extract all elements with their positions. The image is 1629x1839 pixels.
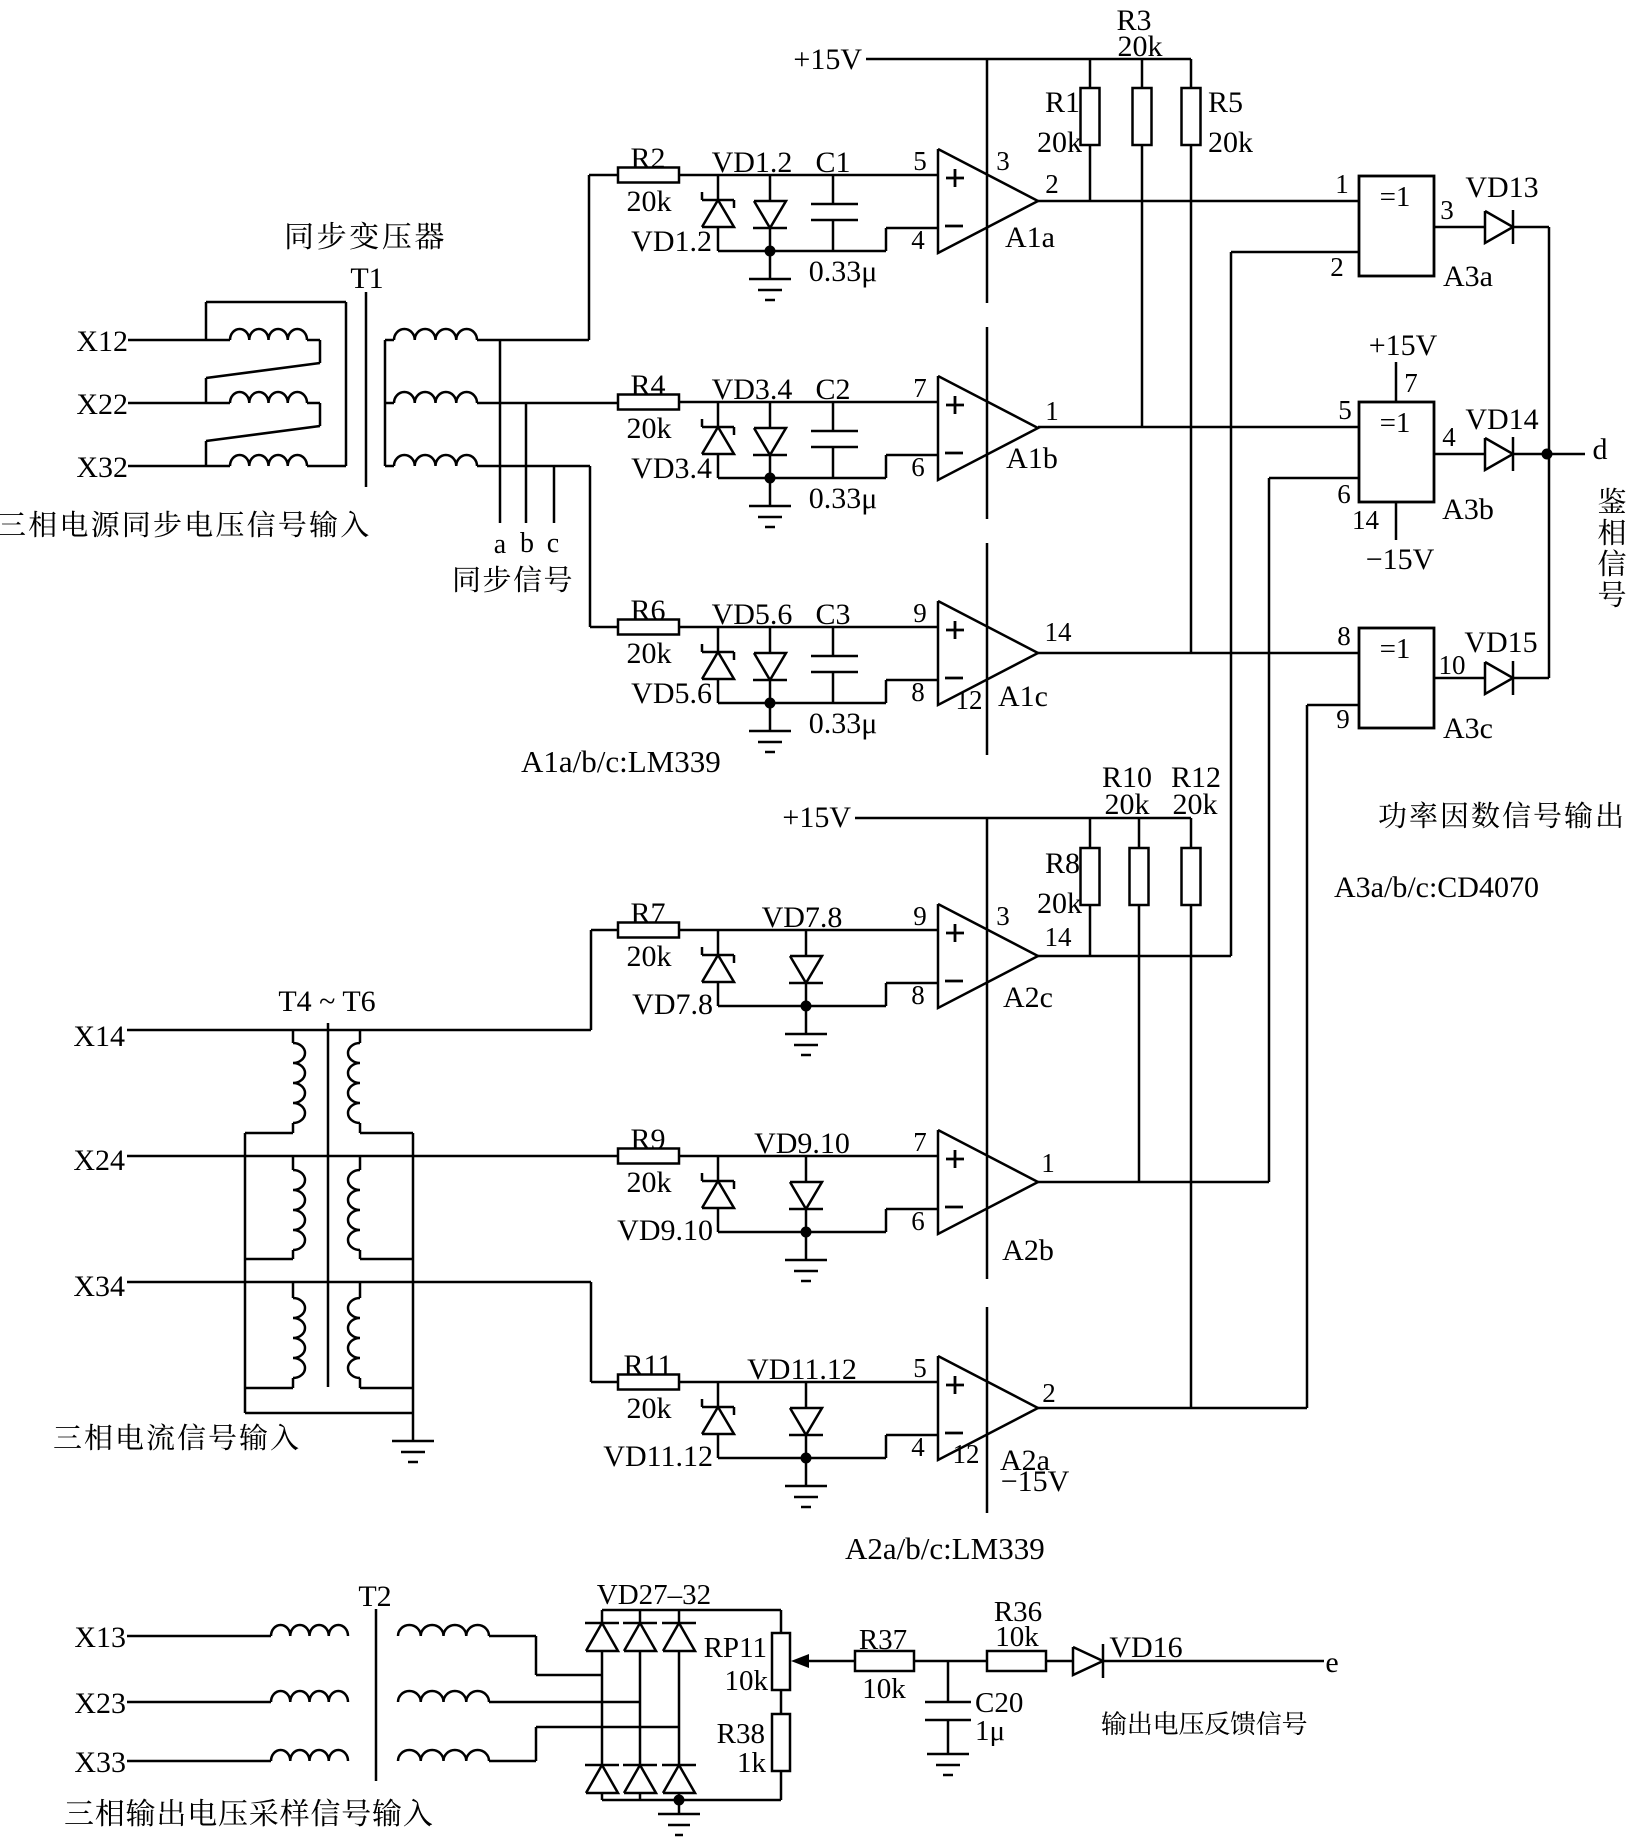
svg-text:a: a	[494, 529, 507, 560]
svg-text:VD11.12: VD11.12	[747, 1353, 857, 1386]
svg-text:VD11.12: VD11.12	[603, 1440, 713, 1473]
svg-text:1: 1	[1335, 169, 1349, 199]
svg-text:10k: 10k	[995, 1621, 1039, 1653]
svg-text:A3a/b/c:CD4070: A3a/b/c:CD4070	[1334, 871, 1539, 904]
svg-text:X32: X32	[76, 451, 128, 484]
svg-text:2: 2	[1330, 252, 1344, 282]
svg-text:VD13: VD13	[1465, 171, 1538, 204]
svg-text:20k: 20k	[1173, 788, 1218, 821]
svg-text:20k: 20k	[1037, 887, 1082, 920]
svg-text:R1: R1	[1045, 86, 1080, 119]
svg-text:X23: X23	[74, 1687, 126, 1720]
svg-text:8: 8	[911, 980, 925, 1010]
svg-text:VD27–32: VD27–32	[597, 1579, 711, 1611]
svg-text:R8: R8	[1045, 847, 1080, 880]
svg-text:X22: X22	[76, 388, 128, 421]
svg-text:8: 8	[911, 677, 925, 707]
svg-text:=1: =1	[1380, 407, 1411, 439]
svg-text:VD3.4: VD3.4	[631, 452, 712, 485]
svg-text:X34: X34	[73, 1270, 125, 1303]
svg-text:RP11: RP11	[704, 1632, 767, 1664]
svg-text:A3b: A3b	[1442, 493, 1494, 526]
svg-text:A3c: A3c	[1443, 712, 1493, 745]
svg-text:3: 3	[996, 901, 1010, 931]
svg-text:9: 9	[1336, 704, 1350, 734]
svg-text:R38: R38	[717, 1718, 765, 1750]
svg-text:VD5.6: VD5.6	[712, 598, 793, 631]
svg-text:A1c: A1c	[998, 680, 1048, 713]
svg-text:VD9.10: VD9.10	[754, 1127, 850, 1160]
svg-text:7: 7	[1404, 368, 1418, 398]
svg-text:A2b: A2b	[1002, 1234, 1054, 1267]
svg-text:5: 5	[1338, 395, 1352, 425]
svg-text:R7: R7	[630, 897, 665, 930]
svg-text:0.33μ: 0.33μ	[809, 255, 878, 288]
svg-text:R6: R6	[630, 594, 665, 627]
svg-text:VD7.8: VD7.8	[632, 988, 713, 1021]
svg-text:=1: =1	[1380, 181, 1411, 213]
svg-text:VD5.6: VD5.6	[631, 677, 712, 710]
svg-text:X14: X14	[73, 1020, 125, 1053]
svg-text:7: 7	[913, 373, 927, 403]
svg-text:VD9.10: VD9.10	[617, 1214, 713, 1247]
svg-text:4: 4	[1442, 422, 1456, 452]
svg-text:VD1.2: VD1.2	[631, 225, 712, 258]
svg-text:A2a/b/c:LM339: A2a/b/c:LM339	[845, 1531, 1045, 1566]
svg-text:VD15: VD15	[1464, 626, 1537, 659]
svg-text:X13: X13	[74, 1621, 126, 1654]
svg-text:20k: 20k	[627, 940, 672, 973]
svg-text:7: 7	[913, 1127, 927, 1157]
svg-text:VD1.2: VD1.2	[712, 146, 793, 179]
svg-text:C3: C3	[815, 598, 850, 631]
svg-text:5: 5	[913, 1353, 927, 1383]
svg-text:20k: 20k	[627, 637, 672, 670]
svg-text:4: 4	[911, 225, 925, 255]
svg-text:−15V: −15V	[1366, 543, 1435, 576]
svg-text:1: 1	[1041, 1148, 1055, 1178]
svg-text:R37: R37	[859, 1624, 907, 1656]
svg-text:C1: C1	[815, 146, 850, 179]
svg-text:R2: R2	[630, 142, 665, 175]
svg-text:20k: 20k	[1037, 126, 1082, 159]
svg-text:3: 3	[996, 146, 1010, 176]
svg-text:1k: 1k	[737, 1747, 767, 1779]
svg-text:9: 9	[913, 901, 927, 931]
svg-text:X24: X24	[73, 1144, 125, 1177]
svg-text:c: c	[547, 528, 559, 559]
svg-text:R9: R9	[630, 1123, 665, 1156]
svg-text:20k: 20k	[627, 185, 672, 218]
svg-text:20k: 20k	[627, 412, 672, 445]
svg-text:14: 14	[1352, 505, 1380, 535]
svg-text:X12: X12	[76, 325, 128, 358]
svg-text:12: 12	[953, 1439, 980, 1469]
svg-text:X33: X33	[74, 1746, 126, 1779]
svg-text:10: 10	[1439, 650, 1466, 680]
svg-text:6: 6	[1337, 479, 1351, 509]
svg-text:10k: 10k	[725, 1665, 769, 1697]
svg-text:A3a: A3a	[1443, 260, 1493, 293]
svg-text:14: 14	[1045, 922, 1073, 952]
svg-text:6: 6	[911, 1206, 925, 1236]
svg-text:d: d	[1593, 433, 1608, 466]
svg-text:R11: R11	[624, 1349, 673, 1382]
svg-text:VD7.8: VD7.8	[762, 901, 843, 934]
svg-text:20k: 20k	[627, 1166, 672, 1199]
svg-text:3: 3	[1440, 195, 1454, 225]
svg-text:4: 4	[911, 1432, 925, 1462]
svg-text:+15V: +15V	[1369, 329, 1438, 362]
svg-text:T1: T1	[350, 262, 383, 295]
svg-text:T4 ~ T6: T4 ~ T6	[278, 985, 375, 1018]
svg-text:A2c: A2c	[1003, 981, 1053, 1014]
svg-text:T2: T2	[358, 1580, 391, 1613]
svg-text:A1a/b/c:LM339: A1a/b/c:LM339	[521, 744, 721, 779]
svg-text:A2a: A2a	[1000, 1444, 1050, 1477]
svg-text:2: 2	[1042, 1378, 1056, 1408]
svg-text:20k: 20k	[1105, 788, 1150, 821]
svg-text:0.33μ: 0.33μ	[809, 707, 878, 740]
svg-text:A1a: A1a	[1005, 221, 1055, 254]
svg-text:C2: C2	[815, 373, 850, 406]
svg-text:=1: =1	[1380, 633, 1411, 665]
svg-text:12: 12	[956, 685, 983, 715]
svg-text:R5: R5	[1208, 86, 1243, 119]
svg-text:6: 6	[911, 452, 925, 482]
svg-text:9: 9	[913, 598, 927, 628]
svg-text:8: 8	[1337, 621, 1351, 651]
svg-text:VD16: VD16	[1109, 1631, 1182, 1664]
svg-text:10k: 10k	[862, 1673, 906, 1705]
svg-text:1: 1	[1045, 396, 1059, 426]
svg-text:VD14: VD14	[1465, 403, 1538, 436]
svg-text:b: b	[520, 528, 534, 559]
svg-text:14: 14	[1045, 617, 1073, 647]
svg-text:5: 5	[913, 146, 927, 176]
svg-text:2: 2	[1045, 169, 1059, 199]
svg-text:1μ: 1μ	[975, 1715, 1005, 1747]
svg-text:A1b: A1b	[1006, 442, 1058, 475]
svg-text:0.33μ: 0.33μ	[809, 482, 878, 515]
svg-text:20k: 20k	[1208, 126, 1253, 159]
svg-text:R4: R4	[630, 369, 665, 402]
svg-text:e: e	[1325, 1646, 1338, 1679]
svg-text:+15V: +15V	[782, 801, 851, 834]
svg-text:+15V: +15V	[793, 43, 862, 76]
svg-text:VD3.4: VD3.4	[712, 373, 793, 406]
svg-text:20k: 20k	[627, 1392, 672, 1425]
svg-text:20k: 20k	[1118, 30, 1163, 63]
